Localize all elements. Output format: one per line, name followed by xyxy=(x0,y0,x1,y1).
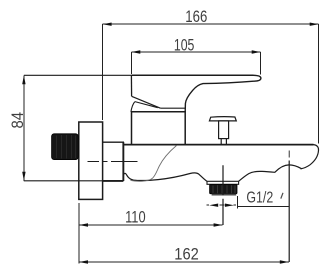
centerline of spout outlet (vertical) xyxy=(288,151,290,263)
arrow 162 right xyxy=(280,260,289,263)
centerline of diverter / hose outlet (vertical) xyxy=(222,165,224,225)
spout underside from hose outlet to tip bump xyxy=(239,165,302,181)
extension line right of 166 xyxy=(318,24,320,143)
spout tip rounded corner and tip curve xyxy=(301,145,319,169)
dimension 84 line xyxy=(23,75,25,181)
dimension 162 line xyxy=(79,261,289,263)
body bottom edge xyxy=(103,180,124,182)
wire extension line of 84 bottom xyxy=(24,180,103,182)
connector right edge xyxy=(122,142,124,181)
hose outlet collar plate xyxy=(207,181,239,184)
arrow 84 up xyxy=(22,75,25,84)
thread dimension right extension xyxy=(236,196,238,208)
dimension 166 line xyxy=(103,23,319,25)
diverter knob cap xyxy=(209,117,236,121)
cartridge cap rectangle xyxy=(132,112,186,145)
thread end chamfer strip xyxy=(212,194,237,196)
lever handle bottom edge and S-curve into body xyxy=(185,81,253,112)
svg-text:166: 166 xyxy=(185,7,207,26)
lever tip bevel underside xyxy=(132,96,161,108)
extension line left of 166 xyxy=(102,24,104,120)
wall flange rectangle xyxy=(79,122,103,199)
diverter knob foot xyxy=(221,139,226,145)
centerline of inlet (horizontal dash-dot) xyxy=(88,161,138,163)
arrow thread right xyxy=(225,204,234,207)
arrow thread left xyxy=(209,204,218,207)
arrowheads xyxy=(22,23,319,264)
arrow 110 right xyxy=(214,223,223,226)
dimension 110 line xyxy=(79,224,223,226)
lever neck left curve xyxy=(131,102,135,112)
arrow 162 left xyxy=(79,260,88,263)
svg-text:110: 110 xyxy=(125,207,146,226)
lever neck bottom line xyxy=(160,107,185,109)
spout top edge xyxy=(123,144,313,146)
lever neck inner seam xyxy=(135,102,158,108)
inner body-to-spout transition curve xyxy=(131,146,177,182)
threaded wall inlet nut (black) xyxy=(52,134,79,160)
inch tick after G1/2 xyxy=(281,193,283,199)
G1/2 leader underline xyxy=(237,206,289,208)
dimension 105 line xyxy=(131,51,260,53)
arrow 166 left xyxy=(103,23,112,26)
svg-text:162: 162 xyxy=(174,245,199,264)
arrow 84 down xyxy=(22,172,25,181)
wire top extension line from lever top to 84 dimension xyxy=(24,74,131,76)
spout underside from body to hose outlet xyxy=(123,173,206,181)
body top edge: connector top xyxy=(103,142,124,144)
thread small dimension line xyxy=(207,204,237,206)
arrow 110 left xyxy=(79,223,88,226)
extension line wall plane xyxy=(78,203,80,264)
extension line right of 105 xyxy=(260,52,262,74)
svg-text:G1/2: G1/2 xyxy=(246,190,273,207)
arrow 105 left xyxy=(131,50,140,53)
svg-text:84: 84 xyxy=(9,112,27,129)
arrow 105 right xyxy=(252,50,261,53)
shower hose outlet thread (black) xyxy=(210,185,237,196)
svg-text:105: 105 xyxy=(174,35,195,54)
lever handle rounded right tip xyxy=(254,75,261,81)
extension line left of 105 xyxy=(130,52,132,74)
lever tip end face xyxy=(130,75,132,96)
diverter knob stem xyxy=(219,121,229,139)
lever handle top edge xyxy=(131,74,253,76)
arrow 166 right xyxy=(310,23,319,26)
